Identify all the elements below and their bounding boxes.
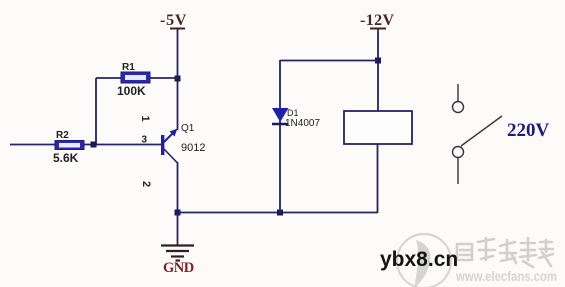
svg-text:100K: 100K	[117, 84, 146, 98]
svg-text:Q1: Q1	[181, 123, 195, 134]
watermark url	[455, 269, 557, 284]
svg-text:9012: 9012	[181, 142, 205, 154]
power -5V	[160, 12, 187, 29]
svg-text:3: 3	[142, 135, 148, 146]
wire R1 left corner	[96, 78, 121, 144]
diode D1	[272, 108, 289, 124]
label R2	[56, 130, 69, 141]
svg-text:5.6K: 5.6K	[53, 151, 79, 165]
watermark ybx8.cn	[380, 248, 458, 271]
wire GND stub	[177, 212, 179, 245]
node junction top	[375, 58, 381, 64]
svg-text:1: 1	[139, 116, 151, 122]
svg-text:ybx8.cn: ybx8.cn	[380, 248, 458, 271]
label R1	[122, 62, 135, 73]
wire R2 to base	[84, 144, 162, 146]
node junction collector	[175, 210, 181, 216]
label Q1	[181, 123, 195, 134]
switch SW top lead	[457, 84, 459, 101]
label 220V	[507, 120, 550, 141]
resistor R1	[121, 72, 150, 83]
svg-text:D1: D1	[287, 108, 299, 118]
svg-text:R2: R2	[56, 130, 69, 141]
wire relay bottom	[377, 144, 379, 213]
node junction R1 right	[175, 76, 181, 82]
transistor Q1	[161, 129, 178, 164]
value 9012	[181, 142, 205, 154]
wire diode branch	[279, 60, 281, 212]
wire top bus	[280, 60, 378, 62]
label GND	[163, 260, 194, 276]
switch contact bottom	[453, 147, 464, 158]
wire -12V down	[377, 29, 379, 112]
svg-text:-5V: -5V	[160, 12, 187, 29]
power -12V	[360, 12, 395, 29]
value 5.6K	[53, 151, 79, 165]
node junction diode bottom	[277, 210, 283, 216]
watermark chinese text	[457, 238, 553, 267]
svg-text:1N4007: 1N4007	[285, 118, 320, 129]
svg-text:2: 2	[140, 181, 152, 187]
wire -5V to emitter	[177, 29, 179, 131]
label D1	[287, 108, 299, 118]
svg-text:R1: R1	[122, 62, 135, 73]
resistor R2	[55, 141, 84, 150]
wire bottom bus	[177, 212, 378, 214]
pin 2	[140, 181, 152, 187]
switch contact top	[453, 102, 464, 113]
svg-text:GND: GND	[163, 260, 194, 276]
wire input left	[10, 144, 55, 146]
wire R1 right	[150, 77, 177, 79]
wire collector down	[177, 162, 179, 212]
svg-text:220V: 220V	[507, 120, 550, 141]
switch blade	[461, 116, 502, 146]
pin 3	[142, 135, 148, 146]
svg-text:www.elecfans.com: www.elecfans.com	[455, 269, 557, 284]
switch bottom lead	[457, 158, 459, 184]
pin 1	[139, 116, 151, 122]
watermark logo circle	[397, 234, 451, 287]
value 100K	[117, 84, 146, 98]
svg-text:-12V: -12V	[360, 12, 395, 29]
relay K1 coil	[344, 111, 412, 144]
ground	[161, 246, 194, 261]
value 1N4007	[285, 118, 320, 129]
node junction base	[91, 142, 97, 148]
